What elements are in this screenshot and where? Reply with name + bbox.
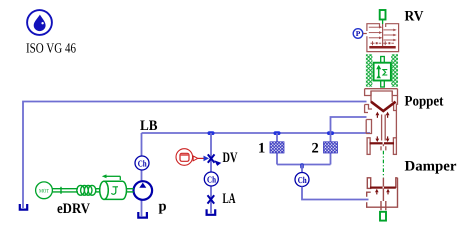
svg-text:LA: LA <box>223 191 236 207</box>
wire to Ch3 <box>301 165 303 174</box>
svg-text:p: p <box>159 199 167 215</box>
valve DV <box>208 154 215 162</box>
mass M <box>374 57 391 88</box>
svg-text:DV: DV <box>223 150 238 166</box>
spring arrows <box>369 26 397 41</box>
svg-text:LB: LB <box>140 118 158 134</box>
svg-text:Damper: Damper <box>405 159 458 175</box>
poppet mid ports <box>366 115 385 141</box>
poppet cone <box>371 102 396 111</box>
damper piston bar <box>370 187 383 189</box>
wire Ch3 to damper <box>302 187 369 200</box>
wire riser to valve <box>331 117 367 133</box>
poppet flow arrows <box>376 112 390 118</box>
tank T2 <box>138 212 147 218</box>
junction J2 <box>274 131 281 135</box>
tank T1 <box>20 204 27 210</box>
guide hatch right <box>391 54 398 86</box>
resistor R2 <box>324 142 338 153</box>
fluid properties icon <box>27 10 52 35</box>
svg-text:Poppet: Poppet <box>405 94 444 110</box>
pressure source P <box>353 29 367 39</box>
svg-text:MOT: MOT <box>39 188 50 194</box>
junction J1 <box>208 131 215 135</box>
preload marks <box>371 41 394 45</box>
seat bar <box>369 46 395 49</box>
motor MOT <box>36 182 53 199</box>
resistor R1 <box>270 142 284 153</box>
valve LA <box>208 195 215 203</box>
poppet housing upper <box>365 89 398 138</box>
inertia speed arrow <box>102 174 121 180</box>
shaft spring-inertia <box>96 189 101 192</box>
signal arrowhead <box>204 156 210 162</box>
svg-text:P: P <box>356 29 361 38</box>
shaft inertia-pump <box>126 189 133 192</box>
chamber Ch2 <box>204 172 218 186</box>
junction J3 <box>327 131 334 135</box>
svg-text:Ch: Ch <box>138 158 147 168</box>
svg-text:eDRV: eDRV <box>57 201 90 217</box>
port bottom <box>380 212 386 221</box>
wire R2 branch <box>330 133 332 165</box>
inertia J <box>100 181 127 199</box>
chamber Ch3 <box>295 173 309 187</box>
damper body <box>367 178 398 211</box>
poppet piston bar <box>370 142 383 144</box>
junction J4 <box>300 163 304 168</box>
mechanical link <box>382 151 384 178</box>
spring housing <box>367 24 399 52</box>
wire collector <box>277 164 331 166</box>
tank T3 <box>207 209 216 215</box>
poppet lower chamber <box>367 138 396 155</box>
svg-text:ISO VG 46: ISO VG 46 <box>26 42 76 57</box>
svg-text:2: 2 <box>312 141 319 157</box>
svg-text:Ch: Ch <box>298 175 307 185</box>
wire pump riser <box>141 133 143 216</box>
svg-text:RV: RV <box>405 9 424 25</box>
rotary spring <box>77 185 96 195</box>
svg-text:Ch: Ch <box>207 174 216 184</box>
wire DV branch <box>210 133 212 213</box>
wire LB supply line <box>142 132 371 134</box>
shaft motor-spring <box>52 187 78 194</box>
damper bar arrows <box>375 189 390 195</box>
wire R1 branch <box>276 133 278 165</box>
chamber Ch1 <box>135 156 149 170</box>
signal source <box>176 149 204 166</box>
guide hatch left <box>366 54 373 86</box>
wire tank return line <box>23 102 367 209</box>
poppet bar arrows <box>375 136 389 142</box>
pump p <box>134 181 153 200</box>
port top <box>380 10 386 24</box>
svg-text:1: 1 <box>258 141 265 157</box>
